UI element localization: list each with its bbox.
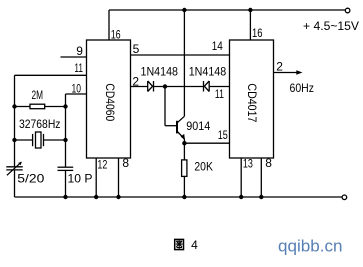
svg-text:1N4148: 1N4148 — [141, 64, 179, 78]
svg-text:9014: 9014 — [186, 119, 210, 133]
svg-text:60Hz: 60Hz — [290, 81, 315, 95]
svg-text:CD4060: CD4060 — [103, 83, 117, 121]
svg-text:qqibb.cn: qqibb.cn — [278, 237, 343, 256]
svg-text:12: 12 — [97, 158, 107, 172]
svg-text:1N4148: 1N4148 — [189, 64, 227, 78]
svg-text:11: 11 — [215, 87, 224, 101]
svg-text:2: 2 — [276, 59, 283, 73]
svg-text:11: 11 — [74, 61, 83, 75]
svg-text:15: 15 — [218, 128, 228, 142]
svg-text:16: 16 — [111, 28, 121, 42]
svg-text:8: 8 — [265, 156, 272, 170]
svg-text:20K: 20K — [194, 160, 213, 174]
svg-text:8: 8 — [122, 156, 129, 170]
svg-text:10: 10 — [72, 81, 82, 95]
svg-text:14: 14 — [212, 39, 223, 53]
svg-text:2: 2 — [132, 75, 139, 89]
svg-text:+ 4.5~15V: + 4.5~15V — [303, 19, 359, 33]
svg-text:32768Hz: 32768Hz — [19, 117, 61, 131]
svg-text:CD4017: CD4017 — [245, 83, 259, 122]
svg-text:4: 4 — [191, 238, 198, 252]
svg-text:9: 9 — [76, 44, 83, 58]
svg-text:2M: 2M — [32, 88, 44, 102]
svg-text:5/20: 5/20 — [17, 172, 44, 186]
svg-text:13: 13 — [243, 157, 253, 171]
svg-text:10 P: 10 P — [68, 172, 93, 186]
svg-text:16: 16 — [252, 26, 263, 40]
svg-text:5: 5 — [133, 42, 140, 56]
